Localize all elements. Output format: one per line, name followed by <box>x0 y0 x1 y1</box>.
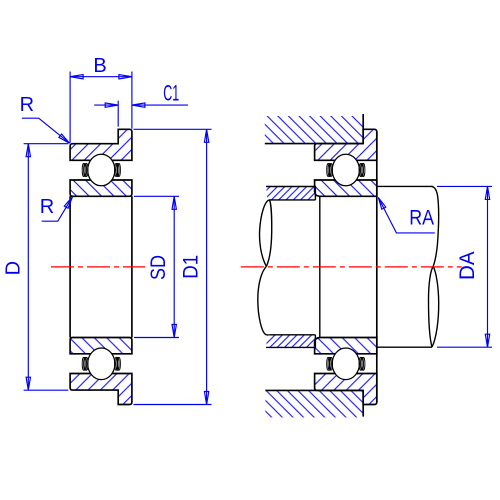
ball top <box>88 154 115 186</box>
centerlines (red dash-dot axis lines) <box>51 266 462 268</box>
ball bottom right view <box>332 348 359 380</box>
leader for R (top outer corner) <box>22 118 70 143</box>
svg-text:D1: D1 <box>180 255 203 279</box>
svg-text:R: R <box>40 196 54 218</box>
dimension DA extension lines and dimension line <box>437 185 492 187</box>
outer ring bottom section right view <box>315 374 377 405</box>
dimension D extension lines and dimension line <box>24 143 69 145</box>
svg-text:C1: C1 <box>163 81 179 106</box>
dimension D1 extension lines and dimension line <box>134 128 212 130</box>
dimension SD extension lines and dimension line <box>134 195 179 197</box>
svg-text:SD: SD <box>147 255 170 280</box>
leader for R (inner ring corner) <box>42 197 73 221</box>
shaft break curve left <box>258 200 272 335</box>
leader for RA (shaft fillet) <box>378 198 435 233</box>
housing top recess face <box>362 114 364 144</box>
svg-text:DA: DA <box>456 251 479 280</box>
svg-text:R: R <box>20 94 34 116</box>
cage marks top ball <box>82 164 120 177</box>
inner ring top section right view <box>315 180 377 196</box>
outer ring top section right view <box>315 129 377 160</box>
inner ring top section <box>70 180 132 196</box>
outer ring top section (with flange) <box>70 129 132 160</box>
housing top hatch <box>265 116 363 144</box>
cage marks <box>327 357 365 370</box>
shaft break curve right <box>429 186 439 347</box>
svg-text:D: D <box>3 261 25 275</box>
cage marks <box>327 164 365 177</box>
housing bottom hatch <box>265 390 363 417</box>
shaft visible edge lines (chamfer silhouettes under bearing) <box>319 196 321 337</box>
svg-text:B: B <box>93 55 106 77</box>
housing top bore line <box>265 143 363 145</box>
svg-text:RA: RA <box>409 206 434 229</box>
shaft right (abutment, DA) <box>377 185 433 187</box>
ball bottom <box>88 348 115 380</box>
inner ring bottom section <box>70 338 132 354</box>
housing bottom bore line <box>265 389 363 391</box>
dimension C1 extension line and arrows <box>117 101 119 127</box>
dimension B extension lines and dimension line <box>69 72 71 143</box>
sleeve (shaft shoulder) top <box>266 187 315 200</box>
bearing face silhouette lines across bore <box>69 196 71 337</box>
inner ring bottom section right view <box>315 338 377 354</box>
cage marks bottom ball <box>82 357 120 370</box>
ball top right view <box>332 154 359 186</box>
housing bottom recess face <box>362 390 364 416</box>
outer ring bottom section (with flange) <box>70 374 132 405</box>
sleeve (shaft shoulder) bottom <box>266 335 315 348</box>
